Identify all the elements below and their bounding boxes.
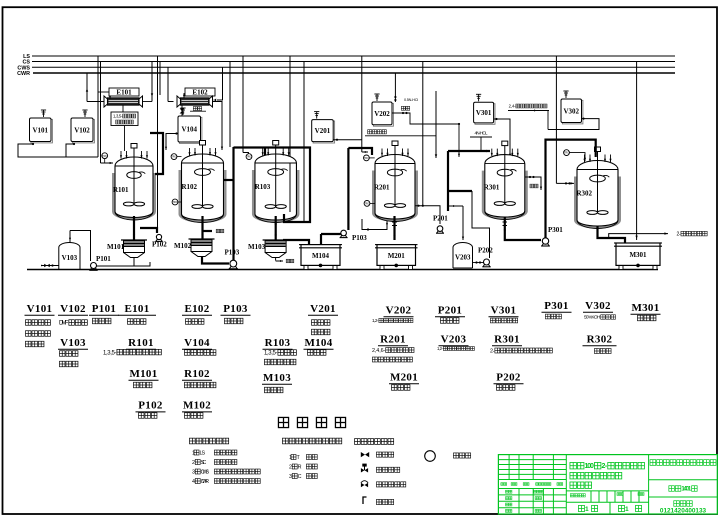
svg-text:E102: E102 xyxy=(184,303,209,315)
svg-text:M103: M103 xyxy=(263,372,291,384)
svg-text:R302: R302 xyxy=(577,190,593,198)
svg-text:TRC: TRC xyxy=(102,154,107,158)
svg-text:P102: P102 xyxy=(138,400,163,412)
svg-text:V104: V104 xyxy=(181,126,197,134)
svg-text:TRC: TRC xyxy=(171,155,176,159)
svg-text:R103: R103 xyxy=(265,337,291,349)
svg-text:R301: R301 xyxy=(484,184,500,192)
svg-text:R103: R103 xyxy=(255,183,271,191)
svg-text:M103: M103 xyxy=(248,243,266,251)
svg-text:3: 3 xyxy=(289,474,292,480)
svg-text:V102: V102 xyxy=(74,126,90,134)
svg-text:TRC: TRC xyxy=(246,155,251,159)
svg-text:M104: M104 xyxy=(304,337,332,349)
svg-text:CWR: CWR xyxy=(201,479,210,485)
svg-text:M201: M201 xyxy=(390,372,418,384)
svg-text:1,2-: 1,2- xyxy=(437,346,444,351)
svg-text:CWS: CWS xyxy=(201,469,210,475)
svg-text:2,4,6-: 2,4,6- xyxy=(372,348,385,354)
svg-text:V103: V103 xyxy=(62,254,78,262)
svg-text:P103: P103 xyxy=(352,234,367,242)
svg-text:P101: P101 xyxy=(96,255,111,263)
svg-text:P202: P202 xyxy=(496,372,521,384)
svg-text:M104: M104 xyxy=(312,252,330,260)
svg-text:P201: P201 xyxy=(433,215,448,223)
svg-text:0121420400133: 0121420400133 xyxy=(660,508,707,515)
svg-text:P102: P102 xyxy=(152,241,167,249)
svg-text:1,2-: 1,2- xyxy=(372,318,379,323)
svg-text:1,3,5-: 1,3,5- xyxy=(113,114,123,119)
svg-text:R102: R102 xyxy=(182,183,198,191)
svg-text:V102: V102 xyxy=(60,303,86,315)
svg-text:V302: V302 xyxy=(585,300,611,312)
svg-text:C: C xyxy=(298,474,302,480)
svg-text:V301: V301 xyxy=(476,109,492,117)
svg-text:M301: M301 xyxy=(631,302,659,314)
svg-text:CWR: CWR xyxy=(17,71,30,77)
svg-text:LS: LS xyxy=(199,450,205,456)
svg-text:M201: M201 xyxy=(388,252,406,260)
svg-text:E102: E102 xyxy=(192,89,208,97)
svg-text:SC: SC xyxy=(201,460,207,466)
svg-text:V203: V203 xyxy=(441,334,467,346)
svg-text:50%KOH: 50%KOH xyxy=(584,315,601,321)
svg-text:V201: V201 xyxy=(310,303,336,315)
svg-text:V203: V203 xyxy=(455,253,471,261)
svg-text:4: 4 xyxy=(192,479,195,485)
svg-text:P202: P202 xyxy=(478,247,493,255)
svg-text:E101: E101 xyxy=(124,303,149,315)
svg-text:R101: R101 xyxy=(128,337,154,349)
svg-text:P301: P301 xyxy=(544,300,568,312)
svg-text:V103: V103 xyxy=(60,337,86,349)
svg-text:V301: V301 xyxy=(491,305,517,317)
svg-text:V101: V101 xyxy=(27,303,53,315)
svg-text:R: R xyxy=(298,464,302,470)
svg-text:M102: M102 xyxy=(174,242,192,250)
svg-text:V302: V302 xyxy=(563,107,579,115)
svg-text:V104: V104 xyxy=(184,337,210,349)
svg-text:TRC: TRC xyxy=(564,151,569,155)
svg-text:1: 1 xyxy=(625,506,629,513)
svg-text:1: 1 xyxy=(585,506,589,513)
svg-text:2-: 2- xyxy=(601,463,607,470)
svg-text:TRC: TRC xyxy=(172,200,177,204)
svg-text:3: 3 xyxy=(192,469,195,475)
svg-text:M301: M301 xyxy=(629,251,647,259)
svg-text:0.5N-HCl: 0.5N-HCl xyxy=(404,98,418,102)
svg-text:P103: P103 xyxy=(225,249,240,257)
svg-text:4N-HCL: 4N-HCL xyxy=(474,130,488,135)
svg-text:DMF: DMF xyxy=(59,321,69,327)
svg-text:1,3,5-: 1,3,5- xyxy=(264,351,277,357)
svg-text:V202: V202 xyxy=(386,305,412,317)
svg-text:M102: M102 xyxy=(183,400,211,412)
svg-text:1: 1 xyxy=(192,450,195,456)
svg-text:TRC: TRC xyxy=(364,202,369,206)
svg-text:P201: P201 xyxy=(438,305,462,317)
svg-text:TRC: TRC xyxy=(364,156,369,160)
svg-text:R102: R102 xyxy=(184,368,210,380)
svg-text:2-: 2- xyxy=(490,348,495,354)
svg-text:1,3,5-: 1,3,5- xyxy=(103,350,116,356)
svg-text:2,4-: 2,4- xyxy=(509,104,516,109)
svg-text:100: 100 xyxy=(585,463,594,470)
svg-text:M101: M101 xyxy=(107,243,125,251)
svg-text:1: 1 xyxy=(289,455,292,461)
svg-text:P103: P103 xyxy=(223,303,248,315)
svg-text:2: 2 xyxy=(192,460,195,466)
svg-text:R301: R301 xyxy=(494,334,520,346)
svg-text:P101: P101 xyxy=(92,303,116,315)
svg-text:R302: R302 xyxy=(587,334,613,346)
svg-text:V201: V201 xyxy=(315,127,331,135)
svg-text:2-: 2- xyxy=(676,231,680,237)
svg-text:2: 2 xyxy=(289,464,292,470)
svg-text:1401: 1401 xyxy=(681,487,691,493)
svg-text:R201: R201 xyxy=(374,184,390,192)
svg-text:R201: R201 xyxy=(380,334,406,346)
svg-text:E101: E101 xyxy=(116,89,132,97)
svg-text:R101: R101 xyxy=(113,186,129,194)
svg-text:P301: P301 xyxy=(548,226,563,234)
svg-text:V202: V202 xyxy=(374,110,390,118)
svg-text:M101: M101 xyxy=(129,368,157,380)
svg-text:V101: V101 xyxy=(32,126,48,134)
